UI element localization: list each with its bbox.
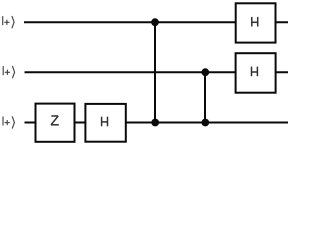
control dot CZ1 q0 — [151, 18, 159, 26]
wire CZ2 vertical q1-q2 — [204, 72, 206, 122]
node |+> label q2 — [3, 116, 14, 128]
gate H q0 — [236, 3, 276, 42]
control dot CZ1 q2 — [151, 119, 159, 127]
control dot CZ2 q2 — [201, 119, 209, 127]
control dot CZ2 q1 — [201, 68, 209, 76]
node |+> label q0 — [3, 16, 14, 28]
wire q0 — [24, 21, 288, 23]
gate Z q2 — [36, 104, 75, 142]
gate H q2 — [85, 104, 125, 142]
wire CZ1 vertical q0-q2 — [154, 22, 156, 122]
wire q2 — [25, 122, 289, 124]
wire q1 — [25, 71, 289, 73]
node |+> label q1 — [3, 66, 14, 78]
gate H q1 — [236, 53, 276, 92]
